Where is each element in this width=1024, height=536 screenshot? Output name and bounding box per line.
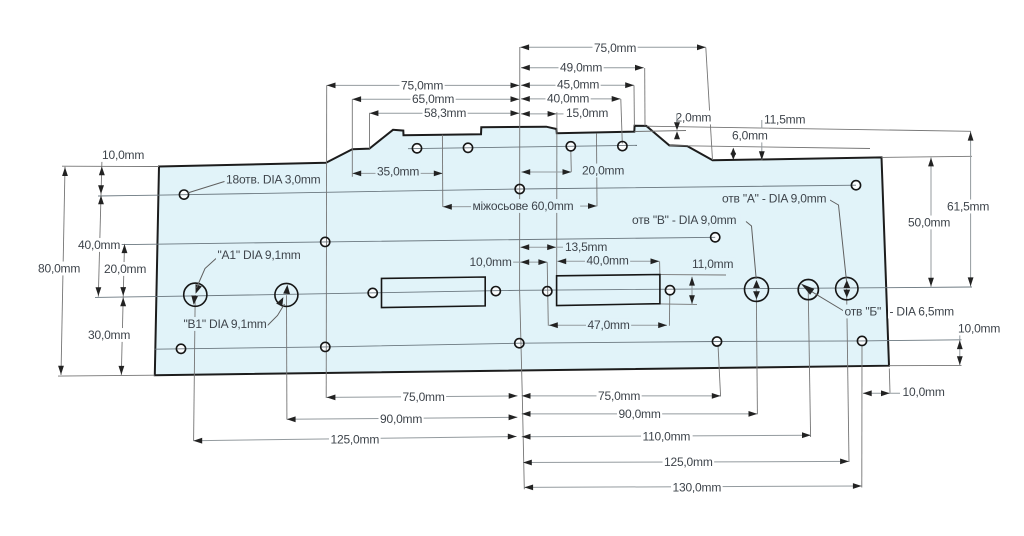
svg-text:75,0mm: 75,0mm (403, 390, 445, 404)
svg-text:80,0mm: 80,0mm (38, 261, 80, 275)
dimension 40,0mm slot (557, 260, 659, 262)
svg-text:10,0mm: 10,0mm (470, 255, 512, 269)
label 18 holes DIA 3,0mm with leader (188, 181, 227, 193)
hole A circle (836, 277, 858, 299)
label B1 with leader (268, 304, 285, 326)
dimension 11,5mm (763, 113, 808, 127)
extension line bottom right corner (888, 369, 891, 393)
reference line for 2,0mm step (635, 131, 687, 132)
svg-text:58,3mm: 58,3mm (424, 106, 466, 120)
dimension 40,0mm top (521, 98, 621, 100)
small hole row3 2 (321, 342, 330, 351)
dimension 40,0mm left vertical (98, 196, 104, 205)
hole Б circle (798, 280, 818, 300)
dimension 65,0mm (352, 98, 519, 100)
svg-text:47,0mm: 47,0mm (588, 318, 630, 332)
small hole row2 right (711, 233, 720, 242)
svg-text:130,0mm: 130,0mm (673, 480, 722, 494)
extension line 35,0/interaxial left (441, 135, 443, 207)
extension line 20,0/30,0mm left (121, 244, 124, 375)
dimension 11,0mm slot height (691, 277, 693, 304)
dimension 15,0mm (521, 113, 556, 115)
svg-text:49,0mm: 49,0mm (560, 61, 602, 75)
small hole slot2 left (543, 287, 552, 296)
extension line 45,0mm (633, 85, 635, 125)
dimension 49,0mm (521, 67, 644, 69)
slot 1 (382, 277, 486, 308)
slot 2 top extension (660, 274, 726, 276)
small hole row3 1 (176, 344, 185, 353)
extension line hole B to 90,0mm (756, 290, 757, 415)
svg-text:75,0mm: 75,0mm (594, 41, 636, 55)
dimension 75,0mm bottom left (327, 396, 518, 398)
hole row line 3 with right extension (58, 374, 155, 377)
svg-text:отв "В" - DIA 9,0mm: отв "В" - DIA 9,0mm (632, 213, 737, 227)
extension line hole A1 to 125,0mm (194, 295, 196, 441)
small hole row3 4 (712, 337, 721, 346)
dimension 61,5mm right vertical (970, 132, 972, 287)
svg-text:15,0mm: 15,0mm (566, 106, 608, 120)
hole row line 2 with left extension (121, 237, 715, 244)
reference line for 6,0mm (670, 146, 871, 149)
dimension 130,0mm bottom right (524, 486, 861, 487)
dimension 90,0mm bottom left (287, 417, 518, 419)
svg-text:61,5mm: 61,5mm (947, 199, 989, 213)
extension line 20,0mm middle right (570, 150, 573, 172)
dimension 125,0mm bottom left (193, 437, 516, 441)
extension line 40,0mm top to hole (621, 99, 623, 144)
dimension 125,0mm bottom right (523, 461, 849, 462)
small hole top row 2 (463, 143, 472, 152)
hole A1 circle (184, 283, 207, 306)
upper reference line for 61,5mm and 11,5mm (647, 126, 972, 131)
dimension 80,0mm left vertical (62, 167, 68, 176)
small hole top row 1 (412, 144, 421, 153)
extension line 10,0/40,0mm left (98, 162, 102, 297)
svg-text:40,0mm: 40,0mm (587, 254, 629, 268)
dimension 47,0mm (549, 324, 667, 326)
top hole row line (408, 145, 637, 148)
svg-text:90,0mm: 90,0mm (619, 407, 661, 421)
long center extension line x=520 (520, 47, 525, 489)
label A1 with leader (197, 259, 217, 289)
small hole row1 center (515, 184, 524, 193)
extension line interaxial right (596, 134, 599, 207)
small hole row3 3 (515, 339, 524, 348)
dimension 45,0mm (521, 84, 634, 86)
dimension 90,0mm bottom right (522, 413, 758, 415)
dimension 20,0mm middle (521, 171, 571, 173)
extension line 80,0mm (61, 167, 65, 375)
hole Б leader arrow (808, 290, 844, 311)
extension line 130,0mm (861, 345, 863, 488)
svg-text:125,0mm: 125,0mm (664, 455, 713, 469)
extension line hole A to 125,0mm (847, 289, 849, 462)
svg-text:110,0mm: 110,0mm (643, 429, 691, 443)
small hole row1 left (179, 190, 188, 199)
dimension 35,0mm (352, 172, 442, 174)
svg-text:- DIA 6,5mm: - DIA 6,5mm (890, 304, 955, 318)
small hole slot1 left (368, 288, 377, 297)
svg-text:75,0mm: 75,0mm (401, 78, 443, 92)
dimension 13,5mm (520, 246, 556, 248)
extension line hole B1 to 90,0mm (286, 295, 288, 419)
label hole A with leader (829, 200, 847, 282)
dimension 75,0mm top left (327, 84, 520, 86)
svg-text:11,0mm: 11,0mm (692, 257, 733, 271)
dimension 75,0mm bottom right (522, 395, 721, 397)
svg-text:35,0mm: 35,0mm (377, 164, 419, 178)
svg-text:20,0mm: 20,0mm (104, 262, 146, 276)
svg-text:11,5mm: 11,5mm (764, 112, 805, 126)
dimension 2,0mm step (674, 111, 713, 125)
extension line 75,0mm top right (706, 48, 713, 161)
svg-text:75,0mm: 75,0mm (598, 389, 640, 403)
small hole fills (413, 144, 421, 152)
dimension 110,0mm bottom right (522, 435, 811, 437)
svg-text:"A1" DIA 9,1mm: "A1" DIA 9,1mm (218, 248, 301, 262)
svg-text:10,0mm: 10,0mm (903, 385, 945, 399)
svg-text:65,0mm: 65,0mm (412, 92, 454, 106)
extension line 58,3mm (369, 113, 371, 149)
dimension interaxial 60,0mm (443, 205, 597, 208)
small hole top row 3 (566, 142, 575, 151)
small hole row3 5 (857, 336, 866, 345)
extension line 75,0mm bottom right (718, 345, 721, 397)
dimension 6,0mm (731, 148, 737, 155)
extension line 40,0mm slot left (659, 261, 661, 274)
svg-text:отв "Б": отв "Б" (845, 304, 882, 318)
extension line 49,0mm (644, 68, 646, 126)
svg-text:45,0mm: 45,0mm (557, 78, 599, 92)
dimension 10,0mm bottom right (863, 392, 900, 394)
slot 2 (557, 275, 660, 306)
dimension 58,3mm (370, 112, 520, 114)
svg-text:отв "А" - DIA 9,0mm: отв "А" - DIA 9,0mm (722, 191, 827, 205)
dimension 30,0mm left vertical (120, 298, 126, 307)
plate outline (155, 126, 889, 376)
svg-text:13,5mm: 13,5mm (565, 240, 607, 254)
hole B1 circle (275, 283, 298, 306)
extension line 10,0/47,0mm middle (547, 262, 548, 326)
small hole row2 left (321, 237, 330, 246)
svg-text:125,0mm: 125,0mm (331, 432, 380, 446)
svg-text:2,0mm: 2,0mm (676, 110, 712, 124)
dimension 10,0mm middle (505, 261, 547, 263)
svg-text:30,0mm: 30,0mm (88, 328, 130, 342)
extension line hole Б to 110,0mm (808, 290, 810, 438)
small hole top row 4 (618, 142, 627, 151)
slot 2 bottom extension (660, 303, 697, 306)
dimension 50,0mm right vertical (930, 157, 932, 287)
extension line 15,0/13,5mm (556, 112, 558, 276)
svg-text:"B1" DIA 9,1mm: "B1" DIA 9,1mm (184, 317, 267, 331)
svg-text:50,0mm: 50,0mm (908, 215, 950, 229)
svg-text:18отв. DIA 3,0mm: 18отв. DIA 3,0mm (226, 172, 321, 186)
svg-text:40,0mm: 40,0mm (78, 238, 120, 252)
top-right edge extension (882, 156, 973, 157)
hole row line 1 (98, 185, 856, 196)
dimension 20,0mm left vertical (122, 244, 128, 253)
small hole row1 right (851, 181, 860, 190)
svg-text:90,0mm: 90,0mm (380, 412, 422, 426)
svg-text:40,0mm: 40,0mm (547, 91, 589, 105)
small hole slot2 right (665, 286, 674, 295)
svg-text:міжосьове 60,0mm: міжосьове 60,0mm (473, 199, 574, 213)
hole B circle (745, 277, 769, 301)
svg-text:6,0mm: 6,0mm (732, 128, 768, 142)
dimension 10,0mm right edge vertical (959, 335, 961, 365)
label hole Б part 1 (843, 305, 884, 319)
svg-text:10,0mm: 10,0mm (958, 321, 1000, 335)
dimension 10,0mm top left vertical (99, 167, 105, 176)
small hole slot1 right (491, 287, 500, 296)
label hole B with leader (746, 222, 756, 280)
long extension line x=326 (325, 85, 328, 398)
extension line 47,0mm right (668, 294, 670, 326)
bottom edge extension right (889, 364, 962, 366)
center axis line (95, 287, 972, 297)
label hole Б part 2 (888, 305, 956, 319)
extension line 65,0/35,0mm (351, 99, 353, 177)
top edge extension left (62, 165, 159, 167)
svg-text:10,0mm: 10,0mm (102, 148, 144, 162)
svg-text:20,0mm: 20,0mm (582, 163, 624, 177)
dimension 75,0mm top right (520, 46, 706, 48)
